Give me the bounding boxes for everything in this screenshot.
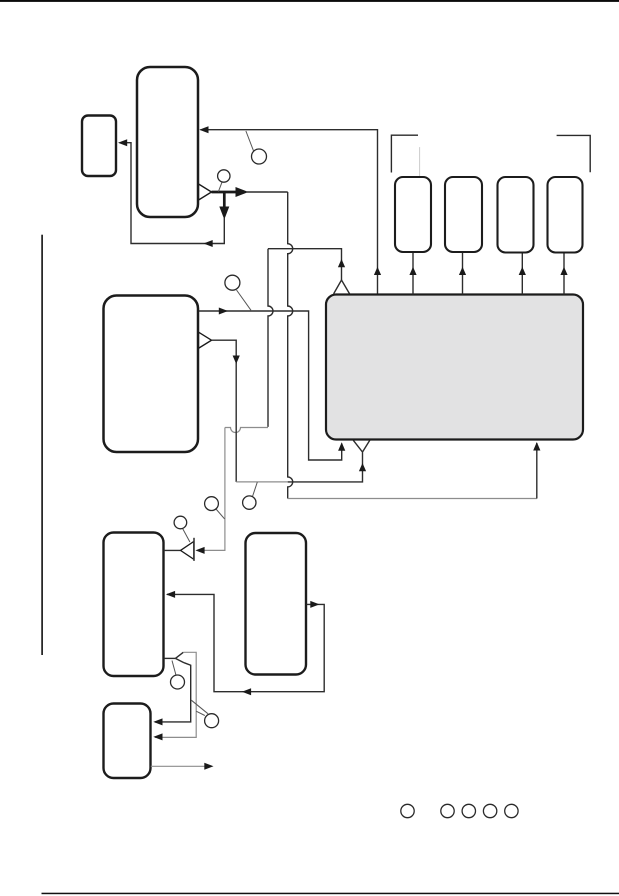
arrowhead left into valve bar [195, 547, 204, 554]
legend circle 4 [483, 804, 496, 817]
arrowhead up into grey box bottom (left) [338, 442, 345, 451]
black right part of y=481.9 and up arrow to Y-funnel [288, 453, 363, 482]
up into grey box bottom right [536, 443, 538, 499]
valve symbol (left-pointing triangle with bar) at B5 top-right [164, 549, 181, 551]
long grey horizontal y=498.5 [288, 498, 537, 500]
arrowhead right exiting B6 [310, 601, 319, 608]
vertical riser x=287.7 with hops, to bottom then right to under grey box [288, 192, 293, 499]
arrowhead right mid-line y=311 [219, 308, 228, 315]
arrowhead up on x=377.5 [374, 267, 381, 275]
wire: B4 triangle right, down x=236.2, right y=481.9, up into Y-funnel [212, 340, 237, 482]
arrowhead up on x=362.5 [359, 463, 366, 471]
grey horizontal y=427.5 with downward hop at x=235.5 [225, 428, 268, 433]
arrowhead left into B7 (lower) [153, 733, 162, 740]
legend circle 2 [441, 804, 454, 817]
balloon 6 leader [183, 529, 190, 543]
block B2 (small upper-left) [82, 116, 116, 177]
wire: outer split path into B7 (grey) [155, 652, 196, 737]
bracket left [391, 135, 418, 172]
arrowhead left into B7 (upper) [153, 718, 162, 725]
balloon 2 [252, 149, 267, 164]
Y-funnel junction under grey box [353, 440, 370, 452]
thin continuation to vertical riser [247, 191, 288, 193]
faint guide line [419, 147, 421, 196]
legend circle 5 [505, 804, 518, 817]
wire: down then left and up into B2 [120, 143, 225, 244]
arrowhead into B2 right edge [118, 139, 127, 146]
thick right arrowhead [236, 187, 249, 197]
arrowhead up on x=341.5 [338, 259, 345, 267]
balloon 3 [225, 275, 240, 290]
wire: vertical x=268 down, left along y=427.5 (grey), down x=224.9 to valve [268, 249, 273, 427]
block T4 [548, 177, 583, 253]
block T2 [445, 177, 482, 252]
wire: B6 loop to B5 [167, 594, 324, 691]
block B4 (mid-left large) [104, 296, 199, 453]
arrowhead left mid-line y=691.7 [242, 688, 251, 695]
balloon 5 leader [253, 482, 258, 496]
legend circle 3 [462, 804, 475, 817]
wire: B7 output to the right [151, 765, 206, 767]
balloon 8 [205, 714, 219, 728]
block T3 [498, 177, 534, 253]
legend circle 1 [401, 804, 414, 817]
left margin rule [41, 235, 43, 655]
balloon 7 leader [172, 661, 176, 676]
block B1 (tall top-left) [137, 67, 198, 217]
top rule [0, 0, 619, 2]
block T1 [395, 177, 431, 252]
balloon 1 [218, 170, 230, 182]
output triangle on B1 [199, 184, 212, 200]
grey left part of y=481.9 [236, 481, 288, 483]
balloon 8 leader b [196, 711, 205, 715]
balloon 8 leader a [191, 700, 208, 714]
connector grey box to block T2 [462, 253, 464, 295]
thick branch down from junction [223, 192, 226, 213]
split funnel on B5 right edge [164, 657, 176, 659]
connector grey box to block T1 [412, 253, 414, 295]
balloon 4 [205, 497, 219, 511]
balloon 1 leader [218, 182, 222, 191]
arrowhead down mid-line x=236.2 [233, 356, 240, 365]
balloon 3 leader [237, 290, 252, 310]
balloon 5 [243, 496, 256, 509]
grey vertical x=224.9 down to y=550.4 [198, 428, 225, 551]
balloon 6 [174, 516, 187, 529]
balloon 7 [171, 675, 185, 689]
bracket right [557, 135, 591, 172]
balloon 4 leader [216, 509, 225, 519]
thick down arrowhead [219, 207, 229, 220]
chevron junction on grey box top [334, 280, 350, 294]
arrowhead left mid-line y=243.5 [204, 240, 213, 247]
arrowhead up into grey box (right) [533, 442, 540, 451]
output triangle on B4 [199, 332, 212, 348]
bottom rule [42, 893, 619, 895]
arrowhead into B1 right edge [199, 126, 208, 133]
arrowhead right at end [204, 763, 213, 770]
block B7 (bottom small) [104, 704, 151, 779]
thick wire from B1 triangle to the right [212, 191, 243, 194]
block B6 (lower-middle tall) [246, 533, 307, 675]
wire: feedback into block B1 top (long top line) [201, 130, 378, 294]
connector grey box to block T3 [521, 253, 523, 295]
connector grey box to block T4 [563, 253, 565, 295]
balloon 2 leader [246, 131, 254, 151]
arrowhead left into B5 right edge [166, 591, 175, 598]
wire: inner split path into B7 (black) [155, 663, 191, 722]
wire: y=248.7 from riser corner to chevron on grey box top [268, 249, 342, 280]
wire: B4 output y=311 to grey box bottom (x=341.7) [199, 311, 342, 460]
grey box [326, 295, 583, 440]
block B5 (lower-left tall) [104, 533, 164, 677]
